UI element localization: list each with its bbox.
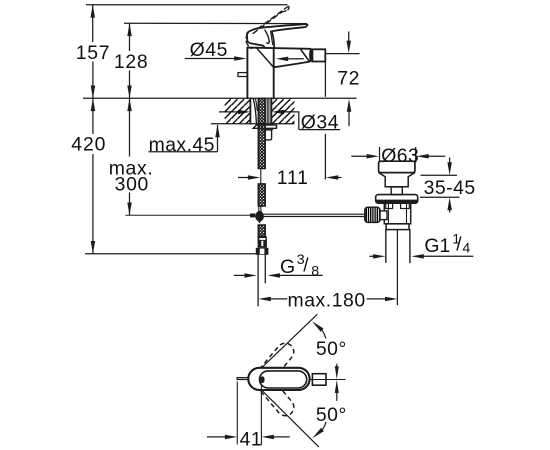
reference line spout outlet (72 datum): [325, 53, 359, 55]
main group: [71, 5, 475, 312]
drain rod centerline: [396, 230, 398, 305]
drain tailpipe: [385, 230, 387, 263]
deck hatching right: [272, 99, 295, 124]
angle arc arrow upper at ray: [312, 321, 324, 332]
svg-text:50°: 50°: [316, 338, 347, 360]
hose ferrule: [258, 236, 267, 247]
50deg ray lower: [262, 391, 319, 448]
horizontal pop-up rod: [264, 213, 365, 215]
svg-text:35-45: 35-45: [424, 177, 476, 199]
deck hatching left: [225, 99, 251, 124]
knob connector: [380, 211, 387, 220]
spout end cap (dark): [309, 49, 312, 62]
svg-text:41: 41: [240, 428, 263, 450]
angle arc upper at centerline: [336, 364, 338, 368]
dashed swung handle upper: [254, 340, 297, 387]
aerator: [312, 49, 325, 61]
svg-text:8: 8: [311, 263, 319, 279]
faucet body: [246, 48, 248, 99]
dimension 157: [76, 5, 110, 99]
50deg ray upper: [262, 314, 318, 368]
side view parts: [225, 6, 418, 305]
rod extension through dim gap: [260, 169, 262, 184]
drain flange with seal: [376, 195, 418, 204]
svg-text:111: 111: [277, 167, 309, 189]
hose hex nut: [256, 248, 269, 255]
reference line rod level (max300 datum): [126, 214, 251, 216]
label Ø45 with leader: [185, 39, 304, 61]
angle arc arrow lower at ray: [312, 428, 324, 439]
hose curve in hole: [253, 98, 256, 123]
drain locknut step: [386, 224, 409, 230]
spout end slant: [300, 49, 309, 62]
dashed swung handle lower: [254, 372, 297, 419]
centerline right: [310, 379, 346, 381]
drain plug disc: [379, 161, 415, 172]
dimension 111: [238, 167, 342, 189]
dimension 128: [114, 23, 148, 98]
body left tab: [238, 73, 247, 77]
drain body tabs: [386, 203, 393, 208]
reference line deck top (long datum): [83, 97, 357, 99]
svg-text:G1: G1: [424, 235, 450, 257]
pull rod hole dot: [260, 376, 265, 383]
aerator square top view: [312, 374, 326, 386]
handle outline top view: [260, 371, 307, 388]
spout bottom edge: [274, 62, 309, 68]
svg-text:50°: 50°: [316, 404, 347, 426]
label Ø34 with leaders: [219, 110, 340, 134]
reference line hose end (420 datum): [85, 253, 256, 255]
svg-text:72: 72: [337, 68, 360, 90]
body outline top view: [248, 368, 309, 390]
drain neck: [379, 173, 415, 187]
reference line lever tip: [124, 22, 307, 24]
drain pull knob (knurled): [365, 207, 380, 222]
mounting washer below deck: [253, 125, 276, 128]
reference line top (spout height datum): [86, 4, 288, 6]
hose nipple stub: [265, 130, 271, 140]
dimension max.300: [109, 98, 154, 215]
dimension 41: [236, 382, 238, 445]
svg-text:Ø63: Ø63: [381, 145, 419, 167]
svg-text:4: 4: [462, 240, 470, 256]
svg-text:300: 300: [115, 173, 149, 195]
deck hole right edge: [270, 98, 272, 124]
left tab top view: [237, 378, 248, 380]
extension line from aerator down: [324, 61, 326, 97]
body/spout junction diagonal: [256, 48, 273, 67]
svg-text:420: 420: [71, 134, 106, 156]
dimension Ø63: [351, 145, 445, 167]
dimension max.180: [258, 290, 397, 312]
faucet handle solid: [247, 24, 308, 47]
deck hole left edge: [249, 98, 251, 124]
dimension G3/8: [234, 252, 323, 279]
svg-text:128: 128: [114, 51, 148, 73]
rod clamp screw: [250, 214, 255, 218]
dimension 72: [337, 32, 360, 127]
faucet handle dashed (open position): [246, 6, 289, 48]
svg-text:157: 157: [76, 42, 110, 64]
threaded shank / braided hose upper: [258, 98, 265, 168]
svg-text:/: /: [303, 256, 309, 277]
braided hose lower: [258, 225, 265, 236]
hole inner lines: [266, 98, 268, 123]
drain body: [384, 203, 410, 224]
rod neck above ball: [258, 206, 260, 211]
pull rod ball joint: [255, 211, 264, 222]
drain bump: [391, 187, 402, 195]
angle arc lower at centerline: [335, 380, 339, 393]
supply tube G3/8: [257, 255, 259, 306]
reference line deck bottom: [211, 123, 295, 125]
dimension max.45: [149, 125, 220, 156]
svg-text:Ø34: Ø34: [301, 112, 339, 134]
braided hose mid: [258, 184, 265, 206]
dimension 420: [71, 98, 106, 254]
svg-text:G: G: [280, 256, 295, 278]
bottom view: [207, 314, 347, 450]
svg-text:/: /: [456, 235, 462, 256]
svg-text:max.180: max.180: [288, 290, 366, 312]
dimension 35-45: [420, 158, 476, 213]
svg-text:max.45: max.45: [149, 134, 215, 156]
dimension G1 1/4: [370, 232, 474, 259]
